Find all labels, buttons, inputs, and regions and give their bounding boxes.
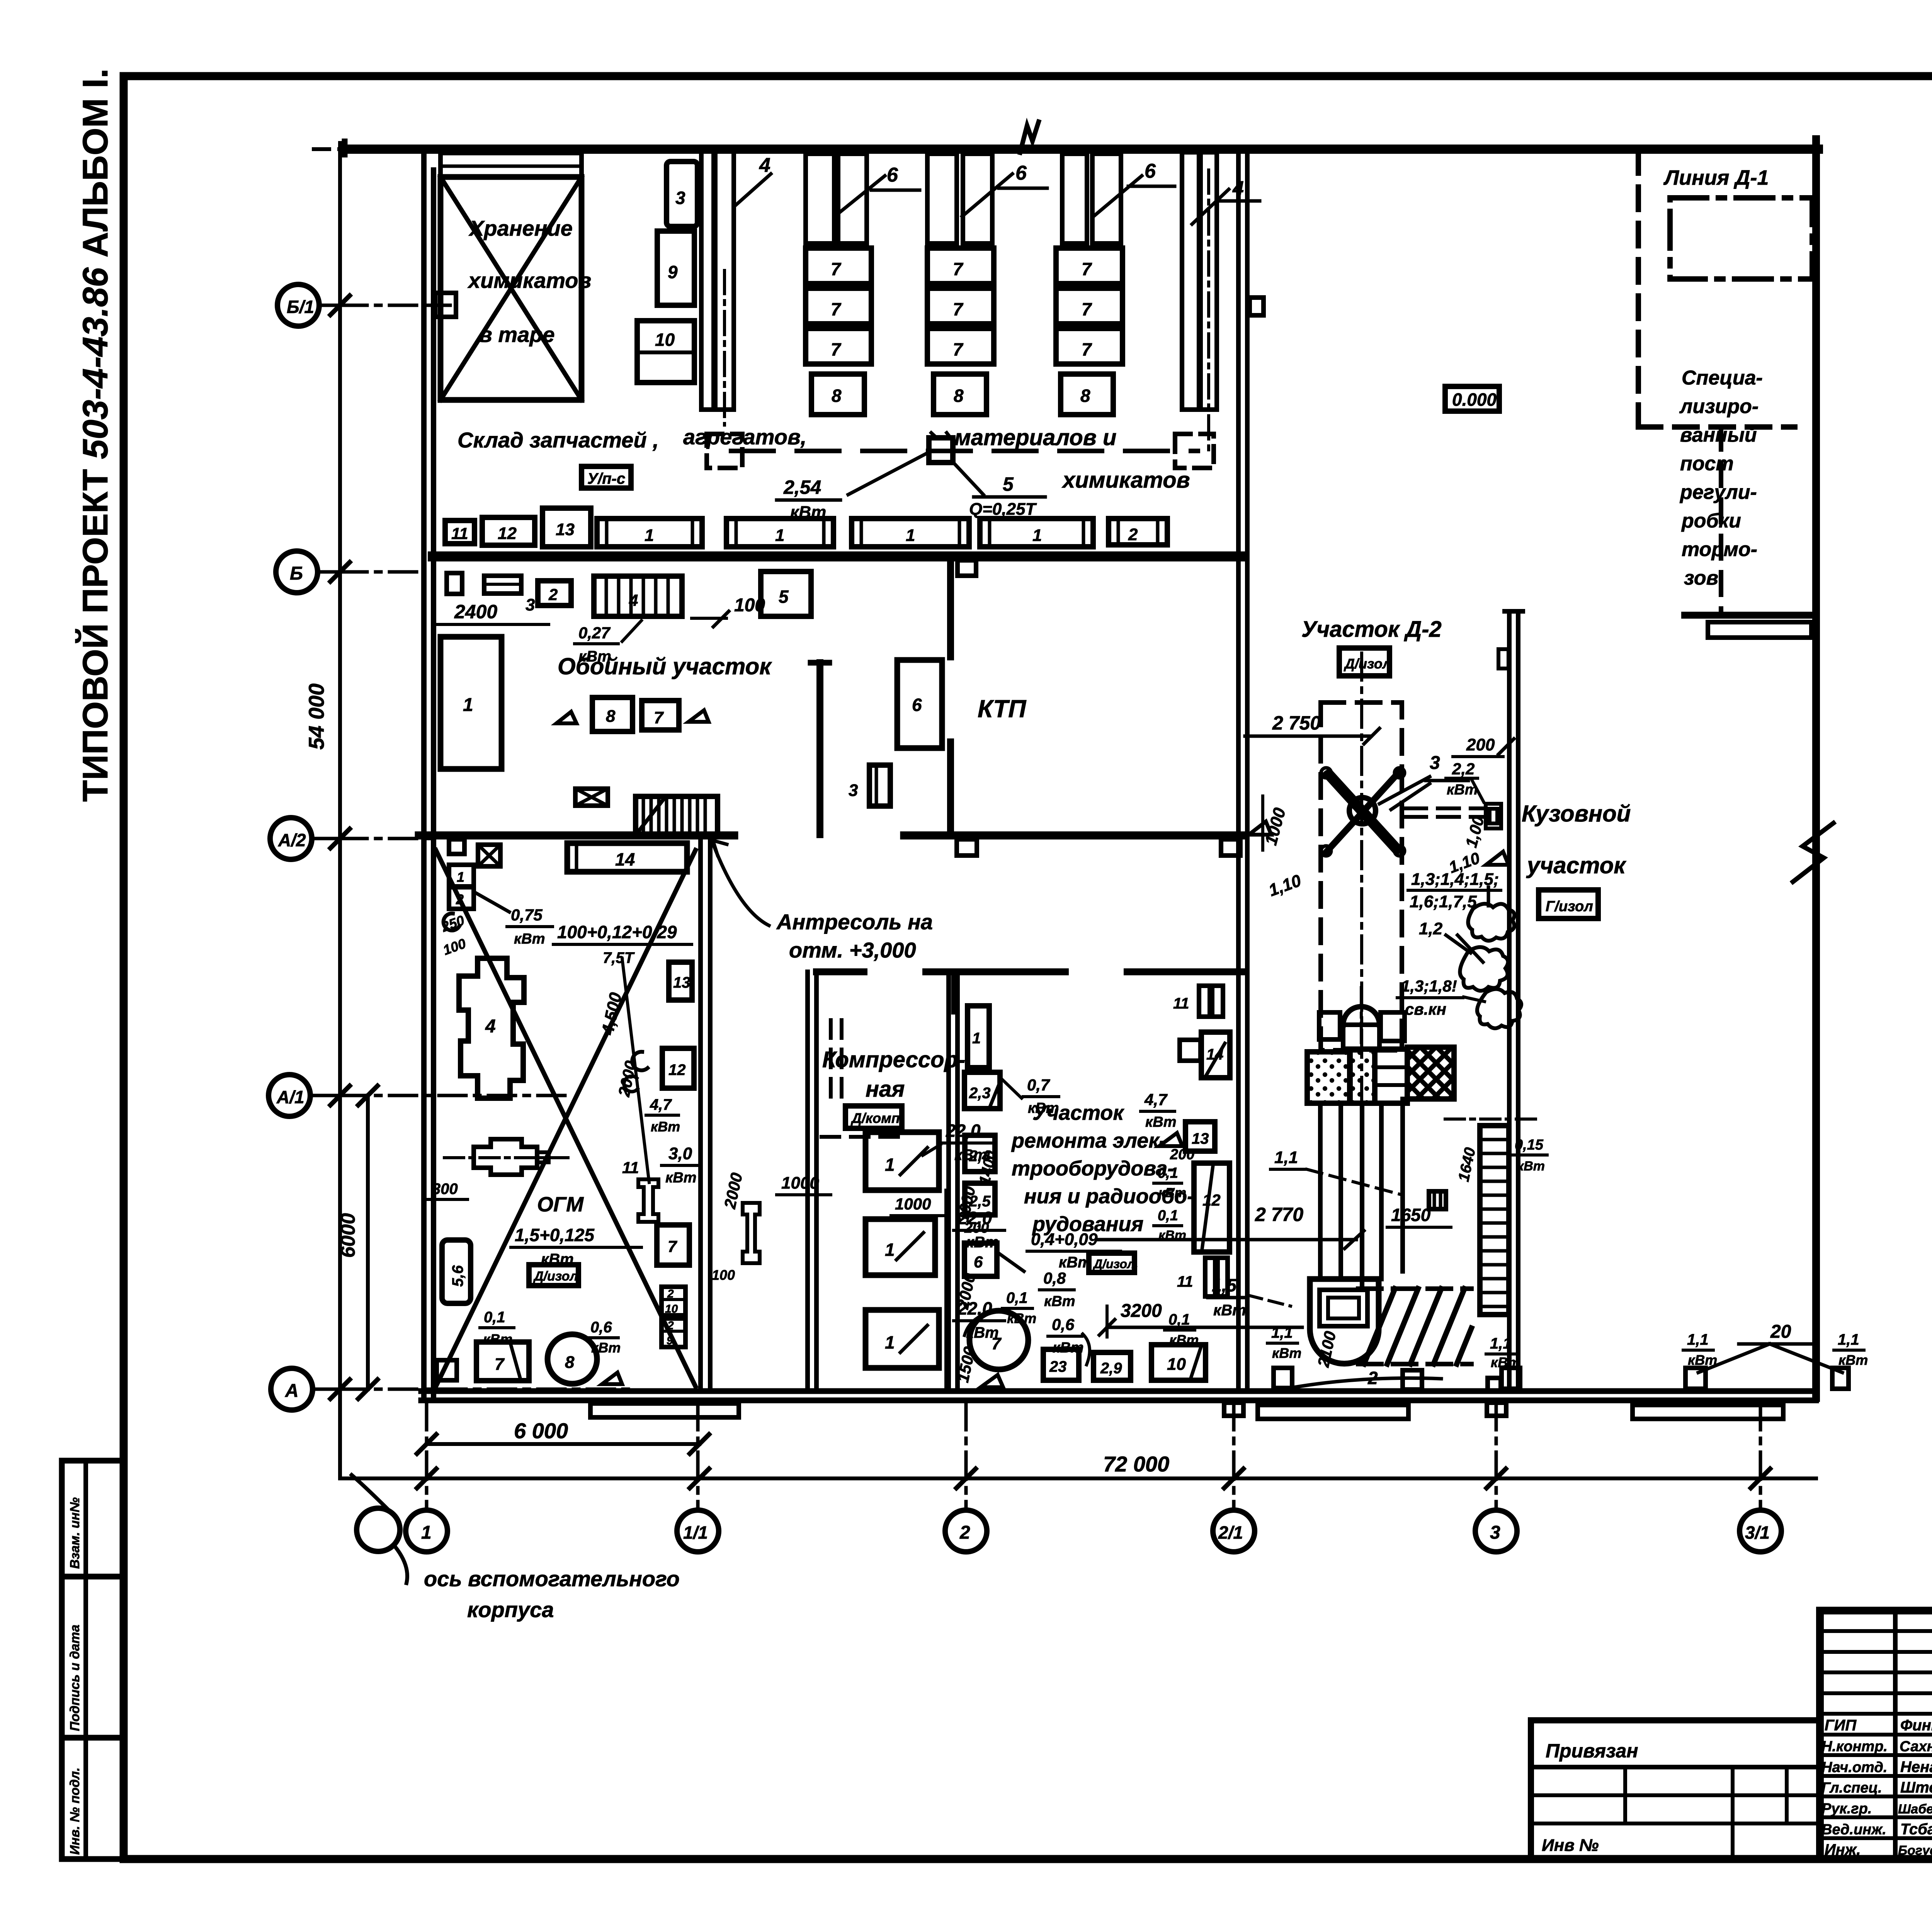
svg-text:7: 7 [953,339,964,359]
svg-text:1: 1 [885,1240,895,1260]
svg-text:11: 11 [622,1158,639,1177]
svg-text:8: 8 [954,386,964,406]
floor box wash [1274,1368,1292,1388]
svg-text:10: 10 [655,330,675,350]
label box D-2 [1339,648,1389,676]
svg-text:1,1: 1,1 [1687,1331,1709,1348]
leader 4 left [736,174,771,205]
shelf boxes 7 group3 [1056,248,1122,284]
svg-text:3: 3 [1430,753,1440,773]
boxes 1 2 stacked [449,865,474,886]
big rack 1 oboiny [440,637,502,769]
svg-text:200: 200 [964,1220,989,1236]
leader 075 kvt [475,893,509,912]
small crossed label box oboiny [575,789,608,806]
svg-text:2: 2 [456,891,464,907]
svg-text:20: 20 [1770,1322,1791,1342]
svg-text:Тсбакова: Тсбакова [1900,1821,1932,1838]
svg-text:10: 10 [1167,1355,1186,1374]
svg-text:1,5+0,125: 1,5+0,125 [515,1225,595,1245]
svg-text:1: 1 [885,1155,895,1175]
axis circle 3 [1475,1510,1517,1552]
svg-text:2,5: 2,5 [969,1193,991,1210]
svg-text:7: 7 [1082,259,1092,279]
pair 11 top [1199,986,1210,1017]
rack 2 [1109,519,1167,545]
svg-text:13: 13 [556,520,575,539]
svg-text:0,1: 0,1 [1168,1311,1190,1328]
svg-text:2400: 2400 [454,601,497,623]
svg-text:100: 100 [712,1267,735,1283]
rack 10 [637,321,694,383]
svg-text:1,3;1,8!: 1,3;1,8! [1401,977,1457,995]
label box remont [1089,1253,1134,1272]
svg-text:1,3;1,4;1,5;: 1,3;1,4;1,5; [1411,870,1499,889]
lift X arms [1325,774,1396,852]
svg-text:0,1: 0,1 [1006,1289,1028,1306]
washer mid column under dome [1343,1025,1379,1049]
triangle ogm [602,1373,622,1384]
axis line A/1 [340,1094,568,1097]
svg-text:кВт: кВт [1044,1293,1075,1310]
machine 7 oboiny [642,701,679,730]
leader 6 group2 [962,174,1012,216]
tall box 12 [1194,1163,1230,1252]
svg-text:св.кн: св.кн [1405,1000,1446,1018]
svg-text:3: 3 [675,188,685,208]
leader 6 group3 [1094,176,1142,216]
svg-text:0,8: 0,8 [1043,1269,1066,1287]
crossed label box antresol [478,845,500,866]
lift dashed platform [1321,703,1402,1050]
svg-text:пост: пост [1680,452,1734,475]
svg-text:6: 6 [1145,160,1156,182]
svg-text:ОГМ: ОГМ [537,1193,584,1216]
dim chain right of kompressors [944,1190,947,1391]
svg-text:1: 1 [463,695,473,715]
svg-text:1,6;1,7,5: 1,6;1,7,5 [1410,892,1477,911]
box 13 small [669,962,692,1000]
post bay threshold [1708,622,1811,638]
axis circle 3/1 [1740,1510,1781,1552]
machine 2 oboiny [538,581,571,606]
dim ticks on vertical line [330,296,350,1399]
axis 1 tick above [342,141,348,155]
svg-text:Б/1: Б/1 [287,297,314,317]
svg-text:Взам. ин№: Взам. ин№ [68,1497,82,1569]
svg-text:4: 4 [629,591,638,609]
svg-text:кВт: кВт [1158,1186,1186,1200]
svg-text:Ненахов: Ненахов [1900,1759,1932,1776]
box 8 group1 [811,374,864,415]
rack pair group3 [1062,154,1087,243]
svg-text:1: 1 [972,1030,981,1047]
svg-text:химикатов: химикатов [467,268,591,293]
svg-text:3: 3 [1490,1522,1500,1543]
svg-text:7: 7 [992,1334,1002,1353]
cloud symbol 3 [1477,989,1521,1028]
svg-text:1: 1 [421,1522,432,1543]
shelf boxes 7 group1 [806,248,871,284]
compressor 1 c [866,1310,939,1368]
privyazan box [1531,1720,1820,1859]
svg-text:6000: 6000 [337,1213,359,1258]
elevation mark 0.000 [1445,386,1499,411]
lift centerline [1360,653,1363,1121]
svg-text:300: 300 [432,1180,458,1197]
monorail dashed line [731,449,1198,453]
svg-text:3/1: 3/1 [1745,1522,1770,1543]
axis line A [340,1388,630,1391]
pump machine [474,1139,537,1175]
svg-text:кВт: кВт [1272,1345,1301,1361]
vertical dimension line 54000 [338,143,342,1478]
OGM cross diagonal 2 [436,850,696,1386]
top outer wall [346,145,1818,154]
small item box on leader [1429,1191,1446,1209]
lower band top wall segment komp-left [816,968,864,975]
axis line B/1 [340,304,450,307]
svg-text:трооборудова-: трооборудова- [1012,1157,1174,1180]
svg-text:Инв №: Инв № [1542,1836,1599,1855]
svg-text:13: 13 [673,974,690,991]
svg-text:кВт: кВт [1213,1302,1246,1319]
machine 8 oboiny [592,697,633,731]
svg-text:Штепин: Штепин [1900,1779,1932,1796]
machine 7 near wall [657,1225,689,1265]
rack 3 [667,162,697,226]
svg-text:КТП: КТП [978,695,1027,723]
box 25 remont [965,1183,995,1215]
box 13 remont [1185,1122,1215,1151]
kuzovnoy floor box right [1832,1368,1849,1389]
left margin stamp strip [59,1461,65,1859]
machine 4 striped [594,576,682,616]
svg-text:в таре: в таре [479,322,555,347]
svg-text:Д/изол.: Д/изол. [1092,1257,1138,1271]
triangle marker d2 [1249,822,1271,835]
pilaster on kuzovnoy wall [1498,649,1509,668]
leader 6 group1 [835,176,885,216]
svg-text:2,54: 2,54 [783,476,821,498]
triangle marker left [556,712,577,723]
svg-text:2: 2 [667,1288,674,1300]
axis circle 2/1 [1213,1510,1255,1552]
svg-text:кВт: кВт [1028,1100,1059,1116]
rack 9 [657,231,694,305]
svg-text:1: 1 [645,526,654,545]
svg-text:У/п-с: У/п-с [587,470,625,487]
lower band top wall segment komp-right [926,968,1065,975]
label box kuzovnoy [1539,890,1598,919]
svg-text:отм. +3,000: отм. +3,000 [789,938,916,962]
svg-text:23: 23 [1049,1358,1067,1375]
svg-text:7: 7 [831,299,842,319]
svg-text:0,6: 0,6 [1052,1315,1075,1334]
pilaster on x3216 wall upper [1250,298,1264,315]
svg-text:3200: 3200 [1121,1301,1162,1321]
interior wall under racks row [433,551,1243,561]
svg-text:2: 2 [667,1319,674,1332]
box 2-9 bottom [1094,1352,1131,1380]
ladder strip [1480,1126,1509,1315]
svg-text:Д/изол: Д/изол [1344,656,1391,672]
box 12 with hook [662,1048,694,1088]
svg-text:Д/комп.: Д/комп. [850,1110,904,1126]
svg-text:2 750: 2 750 [1272,712,1321,734]
svg-text:лизиро-: лизиро- [1679,395,1759,418]
washer crosshatch block D [1407,1047,1454,1099]
svg-text:Нач.отд.: Нач.отд. [1821,1759,1887,1776]
machine 4 stepped polygon tall [459,958,524,1098]
machine 8 circle [548,1334,597,1384]
lift arm end pads [1321,768,1331,778]
axis line B [340,570,425,574]
interior wall kuzovnoy west double [1507,611,1512,1391]
interior wall KTP bottom right segment [904,832,1243,840]
label box U/p-s [582,466,631,488]
box 23 remont [964,1072,1000,1109]
svg-text:5,6: 5,6 [449,1265,466,1287]
svg-text:Сахновская: Сахновская [1900,1738,1932,1755]
door threshold right [1633,1405,1783,1419]
machine 3 oboiny [484,576,521,594]
stairs [636,796,718,835]
svg-text:2: 2 [959,1522,970,1543]
diagonal hatch floor strip [1364,1289,1471,1364]
svg-text:ось вспомогательного: ось вспомогательного [424,1567,680,1591]
svg-text:2,3: 2,3 [969,1085,991,1102]
tall rack pair right [1182,152,1199,410]
OGM cross diagonal 1 [436,850,696,1386]
svg-text:2 770: 2 770 [1255,1204,1303,1225]
svg-text:0,4+0,09: 0,4+0,09 [1031,1230,1098,1249]
svg-text:1,1: 1,1 [1490,1335,1512,1352]
monorail end box left dashed [707,434,742,468]
svg-text:участок: участок [1526,852,1626,878]
svg-text:7: 7 [1082,299,1092,319]
svg-text:1: 1 [906,526,915,545]
pilaster below wall at left [447,573,462,594]
svg-text:72 000: 72 000 [1103,1452,1169,1476]
svg-text:кВт: кВт [591,1340,621,1356]
name table rows [1820,1631,1932,1838]
svg-text:А/1: А/1 [276,1087,304,1107]
washer left column [1319,1012,1340,1039]
svg-text:11: 11 [451,524,468,543]
svg-text:Н.контр.: Н.контр. [1821,1738,1888,1755]
break mark on right wall [1793,823,1833,882]
bottom outer wall double [421,1388,1816,1394]
box 24 remont [965,1135,995,1172]
svg-text:4,7: 4,7 [1144,1090,1168,1109]
triangle mid [1159,1133,1182,1146]
svg-text:1650: 1650 [1391,1205,1431,1225]
pair 11 bottom [1205,1258,1215,1296]
svg-text:2/1: 2/1 [1218,1522,1243,1543]
svg-text:кВт: кВт [1838,1352,1868,1368]
svg-text:Привязан: Привязан [1546,1740,1638,1762]
svg-text:материалов и: материалов и [954,425,1116,450]
rack row box 12 [482,517,535,545]
svg-text:Кузовной: Кузовной [1522,801,1631,827]
axis circle 1/1 [677,1510,719,1552]
wall stub at x2469 [951,972,957,1012]
leader 3 lift [1379,777,1430,804]
long rack 1 a [597,519,702,547]
svg-text:Б: Б [290,563,303,584]
svg-text:робки: робки [1681,510,1741,532]
svg-text:9: 9 [668,262,678,282]
cloud symbol 1 [1468,904,1514,941]
svg-text:5: 5 [1003,473,1014,495]
svg-text:Хранение: Хранение [468,216,573,240]
svg-text:ванный: ванный [1680,424,1757,446]
post bay bottom wall [1685,612,1816,619]
washer dotted block B [1350,1049,1375,1103]
axis circle 2 [945,1510,987,1552]
svg-text:0.000: 0.000 [1452,390,1497,410]
triangle marker d2b [1486,852,1509,865]
box 14 remont [1201,1032,1230,1078]
door notch on storage west wall [435,293,456,317]
box 8 group2 [934,374,986,415]
door threshold middle [1258,1405,1408,1419]
svg-text:14: 14 [615,849,635,869]
interior wall x2100 double [805,972,810,1391]
svg-text:1/1: 1/1 [683,1522,708,1543]
door square [437,1360,457,1380]
svg-text:0,15: 0,15 [1515,1137,1544,1153]
shelf boxes 7 group2 [927,248,994,284]
svg-text:Инж.: Инж. [1825,1841,1861,1858]
axis circle A [271,1368,313,1410]
svg-text:6: 6 [887,164,898,186]
washer right column [1381,1012,1405,1041]
machine 6 tall [897,660,942,748]
pilaster below left wall segment [449,839,464,854]
svg-text:0,1: 0,1 [1158,1165,1178,1181]
svg-text:7: 7 [654,708,664,727]
dash-dot axis through wall [1445,1118,1542,1121]
svg-text:12: 12 [1202,1191,1221,1209]
box 56 [442,1240,471,1303]
svg-text:1: 1 [1032,526,1042,545]
long rack 1 b [726,519,833,547]
interior wall x2460 double [946,972,951,1391]
bottom dimension line 6000 [427,1442,699,1446]
pilaster at KTP wall right end [1221,839,1240,856]
svg-text:кВт: кВт [514,931,545,947]
washer dome arch [1343,1007,1379,1025]
liniya D-1 dashed west boundary [1636,151,1641,427]
washer centerline vertical [1360,988,1363,1043]
svg-text:Инв. № подл.: Инв. № подл. [68,1767,82,1855]
washer striped block C [1375,1049,1407,1103]
svg-text:1,2: 1,2 [1419,919,1443,938]
chemical storage crossed rect [440,177,582,400]
door threshold left [590,1403,739,1417]
rack row box 13 [543,508,591,547]
box 1 remont [968,1006,989,1068]
svg-text:2: 2 [1128,525,1138,544]
svg-text:3: 3 [526,595,535,614]
dimension line 6000 vertical [366,1095,370,1389]
leader 2.54 kvt [848,454,925,495]
svg-text:8: 8 [565,1353,575,1372]
svg-text:Шабельниц.: Шабельниц. [1898,1802,1932,1817]
svg-text:Обойный участок: Обойный участок [558,653,772,679]
right outer wall [1812,139,1820,1398]
svg-text:ТИПОВОЙ ПРОЕКТ 503-4-43.86: ТИПОВОЙ ПРОЕКТ 503-4-43.86 АЛЬБОМ I. [75,68,115,802]
svg-text:2,2: 2,2 [1452,760,1475,778]
svg-text:1000: 1000 [781,1174,819,1192]
svg-text:1,1: 1,1 [1838,1331,1859,1348]
svg-text:кВт: кВт [665,1170,697,1186]
svg-text:зов: зов [1684,567,1718,589]
triangle remont [981,1375,1003,1387]
chemical storage header strip [440,153,582,177]
svg-text:13: 13 [1192,1130,1209,1147]
svg-text:Финкер: Финкер [1900,1717,1932,1734]
axis circle B/1 [277,284,319,326]
compressor 1 a [866,1132,939,1190]
svg-text:4: 4 [1232,177,1244,200]
label box komp [845,1106,902,1128]
wall box d2 [1486,804,1501,828]
triangle marker right [689,710,709,722]
bottom axis stubs dash-dot [427,1403,1760,1509]
svg-text:7: 7 [831,339,842,359]
svg-text:1000: 1000 [895,1195,931,1213]
svg-text:8: 8 [1080,386,1090,406]
svg-text:1,1: 1,1 [1274,1148,1298,1167]
svg-text:4,7: 4,7 [650,1096,672,1113]
box 8 group3 [1061,374,1113,415]
monorail end box right dashed [1175,434,1214,468]
svg-text:ная: ная [866,1077,905,1102]
door post on bottom wall at kuz wall [1488,1378,1501,1391]
svg-text:11: 11 [1173,995,1189,1012]
axis circle B [276,551,318,593]
svg-text:Подпись и дата: Подпись и дата [68,1624,82,1731]
svg-text:Участок Д-2: Участок Д-2 [1301,617,1442,642]
pilaster below wall [957,560,976,576]
rack 14 [567,843,687,872]
svg-text:7: 7 [953,299,964,319]
box 10 bottom [1151,1345,1206,1380]
svg-text:ремонта элек-: ремонта элек- [1011,1129,1166,1152]
rack row box 11 [445,520,474,544]
dryer device round bottom [1310,1279,1379,1364]
svg-text:5: 5 [779,587,789,607]
machine 7 ogm [476,1342,529,1381]
svg-text:6 000: 6 000 [514,1419,568,1443]
name table verticals [1893,1611,1898,1859]
title block outer [1820,1611,1932,1859]
svg-text:54 000: 54 000 [304,684,328,750]
svg-text:тормо-: тормо- [1682,538,1757,561]
small square 14 [1180,1040,1201,1061]
svg-text:8: 8 [606,707,616,726]
axis circle 1 [406,1510,447,1552]
liniya D-1 dashed south boundary [1638,424,1795,430]
svg-text:Специа-: Специа- [1682,367,1763,389]
svg-text:Г/изол: Г/изол [1546,898,1593,915]
svg-text:7: 7 [953,259,964,279]
left outer wall double [421,149,427,1398]
pilaster below bottom wall axis 2/1 [1224,1403,1243,1416]
